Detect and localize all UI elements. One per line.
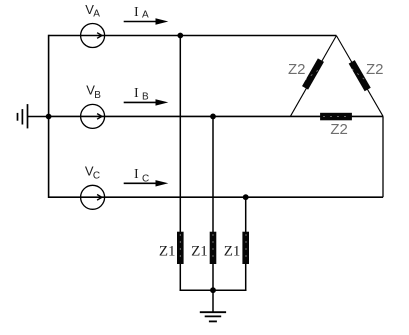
svg-text:Z1: Z1 xyxy=(224,243,241,259)
svg-text:C: C xyxy=(142,173,149,184)
svg-text:Z2: Z2 xyxy=(366,61,384,78)
svg-text:I: I xyxy=(134,5,139,20)
svg-text:A: A xyxy=(142,9,149,20)
svg-text:Z2: Z2 xyxy=(288,61,306,78)
svg-text:Z1: Z1 xyxy=(191,243,208,259)
svg-text:Z1: Z1 xyxy=(159,243,176,259)
svg-text:B: B xyxy=(94,90,101,101)
svg-text:A: A xyxy=(93,8,100,19)
svg-text:I: I xyxy=(134,167,139,182)
svg-text:I: I xyxy=(134,86,139,101)
svg-text:C: C xyxy=(93,170,100,181)
svg-text:Z2: Z2 xyxy=(330,121,348,138)
svg-text:B: B xyxy=(142,92,149,103)
